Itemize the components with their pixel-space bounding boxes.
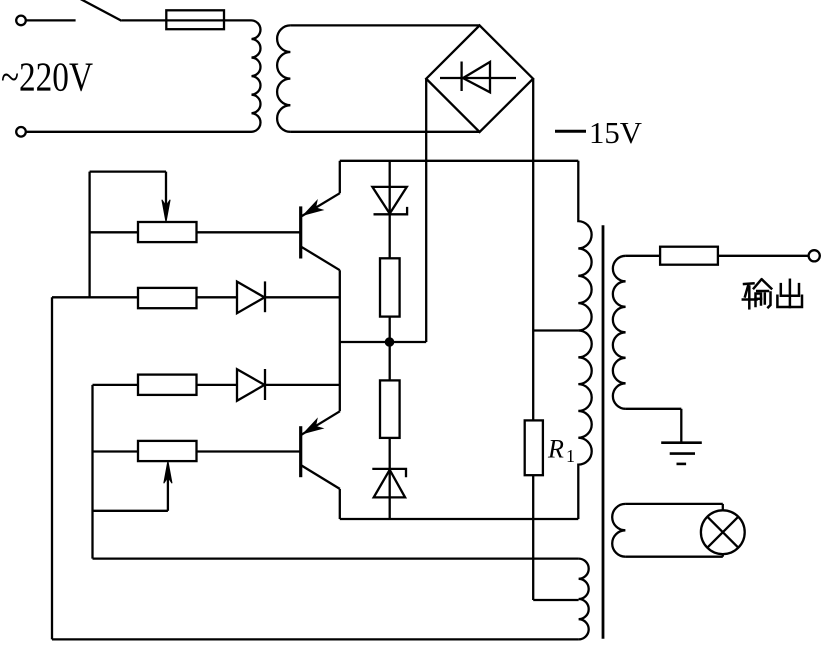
resistor R6 <box>660 247 718 265</box>
terminal: output <box>809 250 820 261</box>
wire: lower rail to T2 primary bottom <box>340 518 579 520</box>
transformer T1 primary winding <box>252 20 261 131</box>
svg-text:R: R <box>547 435 564 464</box>
terminal: AC input top <box>16 16 26 26</box>
wire: VD4 to Q2 emitter line <box>265 384 340 386</box>
wire: base-drive winding top rail <box>93 557 579 559</box>
wire: RP2 wiper lead <box>167 477 169 511</box>
bridge rectifier inner diode triangle <box>463 62 490 92</box>
wire: V2 collector down <box>339 489 341 519</box>
arrow: RP1 wiper <box>162 200 170 222</box>
wire: top terminal to switch <box>26 19 76 21</box>
wire: rail to zener VD1 <box>389 161 391 215</box>
transistor V1 base bar <box>299 206 302 258</box>
fuse FU <box>166 10 224 29</box>
switch S blade <box>79 0 122 21</box>
wire: T1 secondary bottom to bridge AC- <box>290 131 479 133</box>
wire: T2 secondary top to R6 <box>626 255 661 257</box>
ground bar 3 <box>677 463 687 466</box>
wire: bridge left corner down to node A row <box>425 79 427 342</box>
label 输出 (output) glyph 输 <box>743 280 772 309</box>
wire: RP1 left lead <box>90 231 138 233</box>
wire: RP2 to Q2 base <box>197 450 300 452</box>
wire: R1 bottom down <box>532 475 534 600</box>
potentiometer RP2 <box>138 441 197 461</box>
wire: V1 emitter to -15V rail <box>339 161 341 193</box>
bridge rectifier VD diamond <box>426 25 533 132</box>
transformer T2 feedback winding <box>612 504 625 557</box>
transistor V2 collector <box>301 465 340 489</box>
zener diode VD1 cathode bar <box>374 207 408 214</box>
resistor R4 <box>138 288 197 308</box>
label -15V dash <box>555 130 586 133</box>
wire: node A row <box>340 341 426 343</box>
lamp HL cross stroke 1 <box>707 517 738 548</box>
wire: -15V rail <box>340 160 579 162</box>
label 输出 (output) glyph 出 <box>777 280 802 307</box>
wire: left vertical C <box>91 385 93 559</box>
wire: bridge right corner down to R1 <box>532 79 534 421</box>
wire: T2 secondary bottom <box>626 408 682 410</box>
wire: R4 to diode VD3 <box>197 296 238 298</box>
terminal: AC input bottom <box>16 127 26 137</box>
ground bar 2 <box>670 452 695 455</box>
wire: lamp bottom lead <box>722 554 724 557</box>
resistor R5 <box>138 375 197 395</box>
wire: R6 to output terminal <box>718 255 809 257</box>
diode VD4 cathode bar <box>264 369 266 400</box>
transistor V1 collector <box>301 247 340 270</box>
wire: feedback winding top to lamp <box>625 503 722 505</box>
svg-text:1: 1 <box>566 446 575 466</box>
svg-text:15V: 15V <box>589 115 643 150</box>
zener diode VD1 triangle <box>372 187 406 214</box>
diode VD4 triangle <box>237 369 265 401</box>
transformer T2 secondary winding <box>613 256 626 409</box>
diode VD3 triangle <box>237 282 265 314</box>
wire: left vertical B <box>88 172 90 298</box>
ground bar 1 <box>661 441 702 444</box>
wire: bottom terminal to T1 primary <box>26 131 252 133</box>
wire: T1 secondary top to bridge AC+ <box>290 24 479 26</box>
wire: R1 to winding tap <box>533 599 578 601</box>
wire: R2 to R3 through node A <box>389 317 391 381</box>
wire: lamp top lead <box>722 504 724 511</box>
arrow: RP2 wiper <box>164 461 172 483</box>
wire: RP2 left lead <box>93 450 139 452</box>
wire: VD3 to Q1 collector line <box>265 296 340 298</box>
wire: far left vertical <box>51 297 53 639</box>
arrow: V1 emitter (PNP) <box>304 201 323 216</box>
wire: feedback top row <box>90 170 166 172</box>
transistor V2 base bar <box>299 426 302 477</box>
zener diode VD2 triangle <box>374 470 405 498</box>
resistor R3 <box>380 380 400 438</box>
wire: VD2 to lower rail <box>389 497 391 519</box>
wire: VD1 to resistor R2 <box>389 214 391 258</box>
svg-text:~220V: ~220V <box>1 54 93 100</box>
zener diode VD2 cathode bar <box>372 469 406 477</box>
potentiometer RP1 <box>138 222 197 242</box>
wire: V1 collector to V2 emitter <box>339 270 341 411</box>
resistor R2 <box>380 258 400 316</box>
wire: to ground <box>680 409 682 443</box>
transformer T2 base-drive winding <box>579 559 589 640</box>
wire: switch to T1 primary (through fuse) <box>122 19 252 21</box>
transformer T1 secondary winding <box>277 25 290 131</box>
bridge rectifier inner diode cathode bar <box>460 62 462 92</box>
wire: row2 left lead <box>52 296 138 298</box>
wire: RP1 to Q1 base <box>197 231 300 233</box>
lamp HL cross stroke 2 <box>707 517 738 548</box>
wire: T2 primary center tap <box>533 329 578 331</box>
transformer T2 primary winding lower <box>578 331 591 520</box>
wire: RP1 wiper lead <box>165 172 167 208</box>
diode VD3 cathode bar <box>264 281 266 312</box>
wire: RP2 wiper branch <box>93 510 168 512</box>
wire: R5 to diode VD4 <box>197 384 238 386</box>
bridge rectifier inner diode lead <box>440 77 516 79</box>
lamp HL bulb <box>701 510 745 554</box>
wire: row3 left lead <box>93 384 139 386</box>
wire: bottom rail <box>52 638 579 640</box>
arrow: V2 emitter (PNP) <box>304 419 323 434</box>
wire: lamp bottom to feedback winding <box>625 556 722 558</box>
wire: R3 to zener VD2 <box>389 438 391 498</box>
resistor R1 <box>525 420 543 475</box>
transistor V2 emitter <box>301 411 340 435</box>
transformer T2 core <box>602 225 605 638</box>
node A junction dot <box>385 338 394 347</box>
transformer T2 primary winding upper <box>578 161 591 331</box>
transistor V1 emitter <box>301 193 340 216</box>
